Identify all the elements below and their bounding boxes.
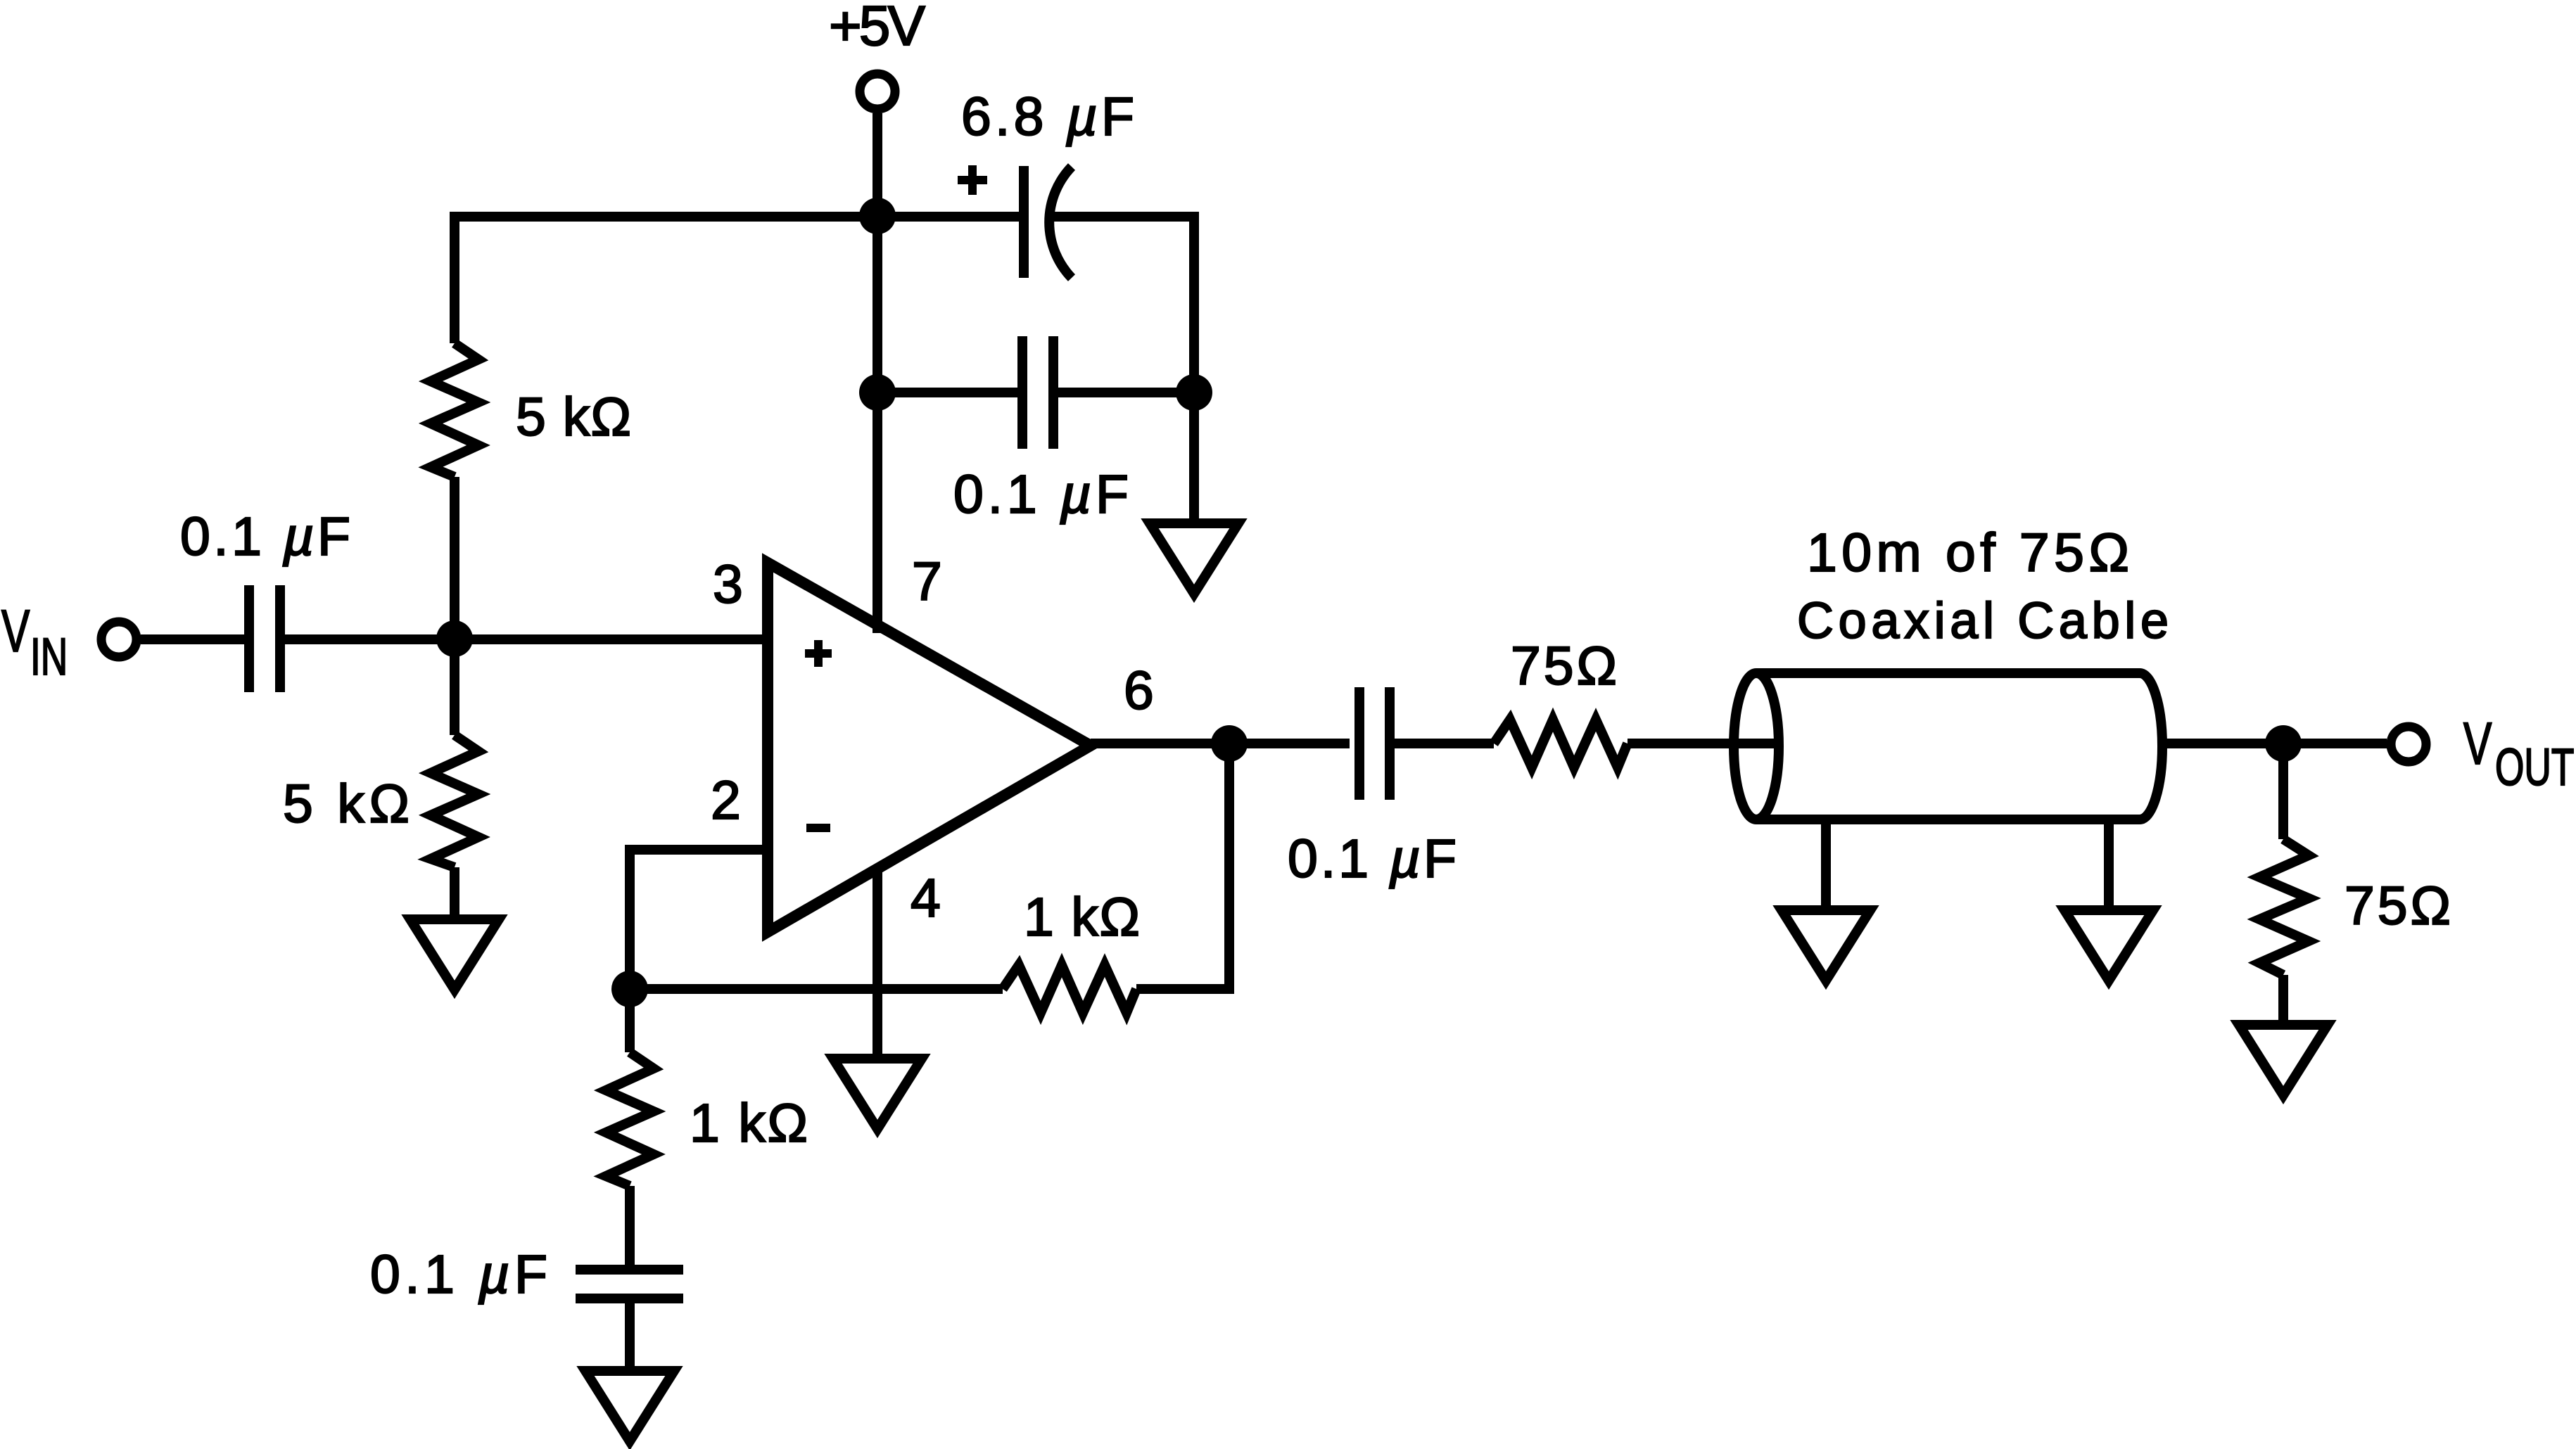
capacitor C5 0.1uF output plate left (1354, 687, 1364, 800)
wire VIN to C3 (141, 634, 244, 644)
svg-text:1 kΩ: 1 kΩ (1024, 887, 1140, 947)
resistor R4 1k feedback (1003, 965, 1136, 1013)
capacitor C5 0.1uF output plate right (1385, 687, 1395, 800)
ground below C4 (585, 1371, 674, 1441)
wire feedback left (630, 984, 1003, 994)
svg-text:OUT: OUT (2495, 738, 2574, 796)
node junction output (1211, 725, 1248, 762)
coaxial cable body (1756, 673, 2140, 819)
svg-text:V: V (2463, 710, 2492, 777)
wire coax shield stub left (1821, 819, 1831, 910)
wire input node to R2 (450, 639, 459, 735)
wire pin7 stem (873, 216, 882, 633)
op-amp plus input mark (805, 640, 832, 667)
svg-text:5 kΩ: 5 kΩ (283, 774, 410, 834)
svg-text:0.1 µF: 0.1 µF (370, 1244, 547, 1305)
capacitor C1 6.8uF curved plate (1049, 167, 1072, 278)
capacitor C3 0.1uF input plate right (275, 585, 285, 692)
svg-text:5 kΩ: 5 kΩ (516, 387, 631, 447)
capacitor C4 0.1uF plate bottom (576, 1294, 683, 1303)
coaxial cable left end ellipse (1734, 673, 1779, 819)
wire C3 to op-amp pin3 (285, 634, 768, 644)
wire C5 to R5 (1395, 739, 1494, 748)
resistor R3 1k vertical (606, 1052, 654, 1186)
ground below pin4 (833, 1059, 922, 1129)
svg-text:3: 3 (713, 554, 743, 615)
node junction VOUT (2265, 725, 2302, 762)
coaxial cable right end cap (2140, 673, 2162, 819)
wire output (1091, 739, 1350, 748)
VOUT terminal (2391, 727, 2426, 762)
svg-text:V: V (1, 598, 30, 664)
wire C4 to ground (625, 1303, 635, 1371)
ground right bypass (1150, 523, 1238, 594)
wire +5V stem (873, 113, 882, 216)
wire R2 to ground (450, 867, 459, 919)
op-amp minus input mark (806, 824, 830, 832)
node junction input (436, 620, 473, 657)
svg-text:6: 6 (1124, 660, 1154, 721)
node junction bypass right (1176, 374, 1212, 411)
svg-text:7: 7 (912, 551, 942, 612)
wire C1 to right corner (1053, 217, 1194, 388)
resistor R5 75 ohm (1494, 720, 1628, 767)
svg-text:0.1 µF: 0.1 µF (953, 464, 1129, 525)
wire pin2 (630, 850, 768, 989)
wire feedback right (1136, 743, 1229, 989)
wire R1 to input node (450, 477, 459, 639)
capacitor C2 0.1uF plate left (1017, 336, 1027, 449)
svg-text:+5V: +5V (829, 0, 926, 57)
node junction inverting (611, 971, 648, 1007)
wire VOUT node to R6 (2278, 743, 2288, 839)
wire top rail (455, 217, 1019, 343)
svg-text:75Ω: 75Ω (1511, 636, 1617, 696)
capacitor C2 0.1uF plate right (1048, 336, 1058, 449)
ground below R6 (2239, 1025, 2328, 1095)
wire coax to VOUT (2162, 739, 2387, 748)
svg-text:4: 4 (911, 868, 941, 928)
svg-text:10m of 75Ω: 10m of 75Ω (1807, 523, 2129, 583)
C1 polarity plus sign (958, 165, 987, 195)
ground below R2 (410, 919, 499, 990)
resistor R6 75 ohm termination (2259, 839, 2309, 975)
wire R5 to coax (1628, 739, 1779, 748)
wire C2 to right rail (1058, 388, 1194, 397)
wire bypass rail (877, 388, 1017, 397)
svg-text:2: 2 (711, 770, 741, 831)
VIN terminal (101, 622, 137, 657)
svg-text:0.1 µF: 0.1 µF (180, 506, 350, 567)
wire right rail down to ground (1189, 392, 1199, 523)
svg-text:1 kΩ: 1 kΩ (690, 1093, 808, 1154)
capacitor C1 6.8uF plate (1019, 166, 1029, 278)
svg-text:IN: IN (30, 627, 68, 686)
svg-text:0.1 µF: 0.1 µF (1288, 829, 1457, 889)
wire node to R3 (625, 989, 635, 1052)
ground coax left (1782, 910, 1870, 981)
svg-text:Coaxial Cable: Coaxial Cable (1797, 593, 2169, 649)
op-amp U1 (768, 563, 1091, 932)
node junction top rail / +5V (859, 198, 896, 234)
wire coax shield stub right (2104, 819, 2114, 910)
wire pin4 stem (873, 867, 882, 1059)
resistor R1 5k upper (431, 343, 478, 477)
wire R3 to C4 (625, 1186, 635, 1265)
svg-text:6.8 µF: 6.8 µF (961, 87, 1134, 147)
capacitor C4 0.1uF plate top (576, 1265, 683, 1275)
capacitor C3 0.1uF input plate left (244, 585, 254, 692)
svg-text:75Ω: 75Ω (2345, 876, 2451, 936)
wire R6 to ground (2278, 975, 2288, 1025)
node junction bypass left (859, 374, 896, 411)
+5V terminal (860, 74, 895, 109)
resistor R2 5k lower (431, 735, 478, 867)
ground coax right (2064, 910, 2153, 981)
